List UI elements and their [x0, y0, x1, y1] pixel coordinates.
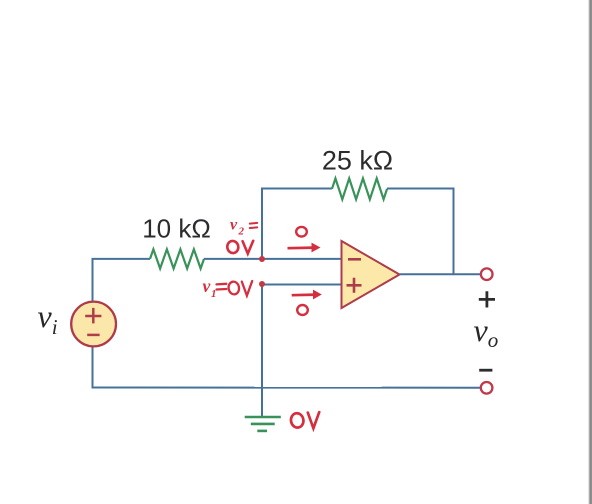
terminal: output minus: [481, 382, 493, 394]
annotation: 0 below arrow: [297, 305, 308, 315]
wire: top rail right of R1 to op-amp minus input: [204, 258, 341, 260]
label: output plus sign: [479, 291, 495, 307]
ground: [245, 417, 281, 431]
annotation: current arrow into inverting input: [288, 243, 321, 253]
resistor R1: [150, 249, 204, 268]
svg-text:10 kΩ: 10 kΩ: [142, 214, 211, 244]
label: output minus sign: [479, 369, 492, 372]
wire: feedback top rail right segment: [387, 188, 455, 190]
wire: ground stem: [261, 285, 263, 417]
wire: op-amp output: [400, 273, 481, 275]
wire: top rail left of R1: [92, 258, 151, 260]
annotation: current arrow at noninverting input: [292, 290, 322, 300]
wire: bottom rail: [93, 387, 481, 389]
wire: feedback vertical down to output: [453, 188, 455, 275]
wire: noninverting input: [262, 284, 341, 286]
resistor R2: [332, 178, 387, 199]
svg-text:25 kΩ: 25 kΩ: [322, 146, 393, 176]
annotation: v2 =: [230, 217, 245, 238]
node: noninverting input dot: [259, 281, 265, 287]
svg-text:v: v: [203, 276, 211, 296]
annotation: 0V at ground: [290, 412, 319, 428]
svg-text:vi: vi: [38, 298, 58, 339]
wire: feedback top rail left segment: [261, 188, 332, 190]
wire: feedback vertical above minus node: [261, 188, 263, 260]
wire: source top vertical: [92, 259, 94, 301]
page right edge bar: [588, 0, 592, 504]
svg-text:v: v: [230, 217, 238, 234]
annotation: v1 = 0V: [203, 276, 217, 300]
terminal: output plus: [481, 268, 493, 280]
annotation: 0V at inverting input: [226, 240, 253, 254]
voltage source Vi: [71, 302, 116, 347]
svg-text:vo: vo: [474, 312, 499, 352]
wire: source bottom vertical: [92, 346, 94, 388]
node: inverting input dot: [259, 256, 265, 262]
annotation: 0 above arrow: [296, 227, 307, 237]
svg-text:2: 2: [238, 226, 245, 238]
op-amp U1: [342, 241, 400, 308]
